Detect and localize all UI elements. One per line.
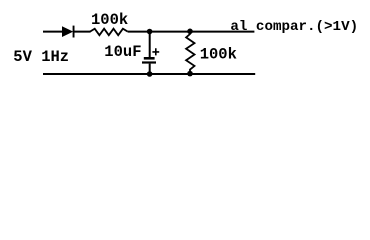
node junction dot at capacitor top <box>147 29 153 35</box>
svg-text:al compar.(>1V): al compar.(>1V) <box>230 19 358 35</box>
wire bottom rail <box>43 73 255 75</box>
resistor R1 100k horizontal <box>90 29 128 36</box>
node junction dot at capacitor bottom <box>147 71 153 77</box>
node junction dot at R2 top <box>187 29 193 35</box>
wire top-left input segment <box>43 31 63 33</box>
wire R1 to output (top rail) <box>128 31 255 33</box>
plus polarity mark <box>152 48 159 55</box>
svg-text:100k: 100k <box>91 11 128 29</box>
capacitor top plate <box>144 57 155 60</box>
resistor R2 100k vertical <box>186 31 194 73</box>
svg-text:10uF: 10uF <box>104 43 141 61</box>
node junction dot at R2 bottom <box>187 71 193 77</box>
svg-text:5V 1Hz: 5V 1Hz <box>13 48 69 66</box>
capacitor bottom plate <box>142 61 156 63</box>
svg-text:100k: 100k <box>200 46 237 64</box>
diode <box>62 26 75 38</box>
capacitor bottom lead <box>149 64 151 74</box>
capacitor C 10uF top lead <box>149 32 151 58</box>
wire diode to R1 <box>74 31 91 33</box>
